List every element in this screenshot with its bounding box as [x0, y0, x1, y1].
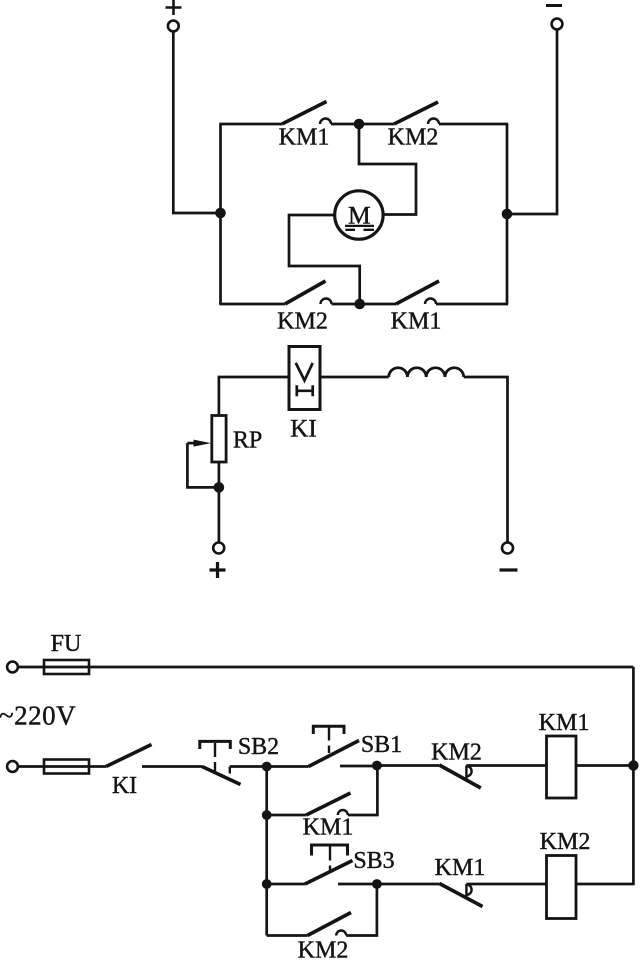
node (left bridge junction) [215, 208, 226, 219]
wire coil KM1 to right bus [576, 764, 633, 767]
node (SB3 output junction) [372, 879, 382, 889]
contactor contact KM1 (self-holding, NO) [306, 793, 350, 815]
svg-text:KM1: KM1 [539, 710, 590, 736]
node (right bus junction) [628, 760, 638, 770]
rheostat RP body [212, 416, 226, 463]
wire bottom bus right segment [436, 303, 508, 306]
label + under left terminal [210, 562, 226, 578]
svg-text:SB3: SB3 [353, 848, 394, 874]
wire RP bottom to + terminal [218, 462, 221, 542]
wire coil KM2 to right bus [576, 883, 635, 886]
wire bottom bus left segment [219, 303, 285, 306]
wire SB3 to node [338, 883, 377, 886]
coil KM2 [547, 856, 577, 919]
motor underline dashed [346, 229, 375, 231]
node control terminal lower [7, 761, 18, 772]
wire wiper to lower tap [187, 443, 219, 487]
wire KM2 aux to riser [346, 884, 377, 936]
wire from + terminal down and to left bridge node [173, 32, 215, 213]
svg-text:SB2: SB2 [238, 734, 279, 760]
wire node to KM2 NC contact [377, 764, 439, 767]
wire from motor left terminal down to bottom centre node [289, 215, 360, 300]
coil KM1 [547, 736, 577, 798]
node - (top supply negative) [546, 6, 562, 30]
svg-text:KM2: KM2 [277, 309, 328, 335]
svg-text:KM1: KM1 [303, 815, 354, 841]
wire KM2 NC to coil KM1 [466, 764, 546, 767]
wire node to KM1 NC contact [377, 883, 440, 886]
node + (field circuit positive terminal) [213, 543, 224, 554]
wire bottom bus to centre node [332, 303, 356, 306]
wire KM1 NC to coil KM2 [466, 883, 546, 886]
rheostat wiper arrow [187, 440, 211, 447]
svg-text:KM2: KM2 [388, 125, 439, 151]
svg-text:KM2: KM2 [540, 829, 591, 855]
label - under right terminal [500, 568, 518, 571]
svg-text:FU: FU [51, 631, 82, 657]
contactor contact KM2 (NC interlock) [439, 765, 481, 788]
wire field-circuit top bus left corner [219, 377, 289, 416]
node (top centre junction) [354, 119, 365, 130]
wire top bus left segment [219, 123, 282, 126]
contactor contact KM2 (bottom left, NO) [285, 281, 332, 304]
node (SB1 output junction) [372, 761, 382, 771]
node - (field circuit negative terminal) [502, 543, 513, 554]
contactor contact KM2 (self-holding, NO) [308, 913, 352, 936]
wire to KM1 aux contact [267, 814, 307, 817]
wire top bus centre segment [363, 123, 394, 126]
wire right bridge vertical [506, 124, 509, 304]
node (SB3 branch junction) [262, 879, 272, 889]
wire top bus to centre node [331, 123, 355, 126]
svg-text:KM2: KM2 [298, 938, 349, 960]
wire lower rail to KI contact [18, 765, 106, 768]
contactor contact KM2 (top right, NO) [394, 102, 439, 124]
pushbutton SB1 (NO) [309, 726, 360, 766]
wire bottom bus centre segment [364, 303, 396, 306]
wire control top rail [18, 666, 633, 669]
wire left bridge vertical [219, 124, 222, 304]
fuse FU [44, 660, 89, 674]
wire left column vertical [265, 767, 268, 936]
wire KI to inductor [320, 376, 389, 379]
wire KM1 aux to riser [348, 766, 378, 816]
wire KM2 aux bottom branch [267, 934, 308, 937]
wire from - terminal down and to right bridge node [512, 30, 557, 214]
node control terminal upper [7, 662, 18, 673]
wire KI contact to SB2 [142, 765, 202, 768]
svg-text:KI: KI [290, 416, 316, 443]
wire inductor to right corner and down [464, 377, 508, 542]
svg-text:KI: KI [112, 773, 137, 799]
KI box chevron symbol [296, 363, 313, 381]
wire SB2 to node [230, 765, 267, 768]
wire from top centre node down to motor right terminal [359, 129, 416, 215]
motor U1 circle [335, 191, 383, 239]
svg-text:KM1: KM1 [391, 309, 442, 335]
svg-text:~220V: ~220V [0, 701, 76, 731]
contactor contact KM1 (top left, NO) [282, 102, 331, 125]
relay coil KI box [289, 347, 320, 410]
fuse FU2 [44, 760, 89, 774]
node (left column top junction) [262, 762, 272, 772]
svg-text:SB1: SB1 [361, 732, 402, 758]
wire node to SB1 [267, 765, 309, 768]
contactor contact KM1 (NC interlock) [439, 884, 482, 907]
svg-text:RP: RP [233, 428, 262, 454]
KI box rotated I symbol [297, 385, 313, 396]
svg-text:KM2: KM2 [431, 740, 482, 766]
node (right bridge junction) [502, 209, 513, 220]
svg-text:KM1: KM1 [435, 855, 486, 881]
relay contact KI (NO) [106, 745, 152, 767]
node + (top supply positive) [166, 0, 182, 31]
pushbutton SB2 (NC) [200, 741, 241, 784]
node (bottom centre junction) [354, 299, 365, 310]
motor underline solid [345, 225, 374, 227]
pushbutton SB3 (NO) [305, 845, 353, 884]
wire top bus right segment [439, 123, 508, 126]
node (rheostat tap junction) [214, 482, 225, 493]
inductor L1 [389, 368, 464, 377]
wire to SB3 [267, 883, 305, 886]
wire SB1 to node [340, 765, 377, 768]
wire right bus vertical [632, 667, 635, 884]
svg-text:KM1: KM1 [279, 125, 330, 151]
contactor contact KM1 (bottom right, NO) [396, 281, 439, 304]
node (KM1 aux branch junction) [262, 810, 272, 820]
